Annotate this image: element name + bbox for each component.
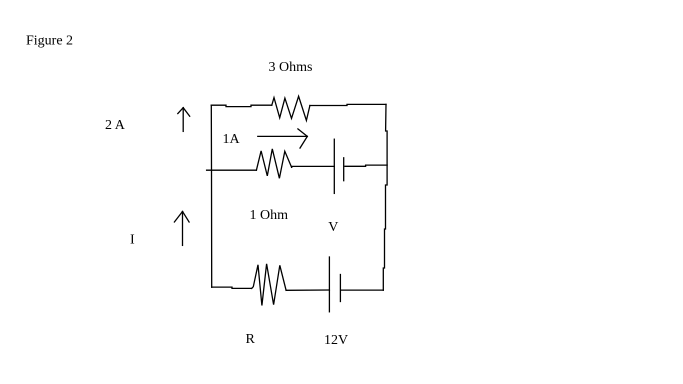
battery V short plate [343,158,345,181]
resistor R2 1 Ohm zigzag [256,149,291,178]
svg-text:R: R [246,332,256,347]
svg-text:12V: 12V [324,333,348,348]
battery V long plate [333,139,335,193]
svg-text:Figure 2: Figure 2 [26,34,73,49]
wire top-left horizontal [211,105,271,106]
battery 12V short plate [339,275,341,302]
wire top-right horizontal [310,104,386,105]
arrow up 2A [178,108,190,132]
wire battery 12V to bottom-right corner [342,289,384,291]
svg-text:I: I [130,233,135,248]
resistor R1 3 Ohms zigzag [272,96,310,120]
svg-text:1 Ohm: 1 Ohm [250,208,289,223]
svg-text:2 A: 2 A [105,118,126,133]
wire bottom to battery 12V [286,289,329,291]
wire bottom-left horizontal [212,287,252,288]
svg-text:V: V [328,220,338,235]
wire left vertical [210,105,212,287]
wire battery V to right edge [345,165,387,166]
resistor R zigzag [252,264,287,306]
wire middle-left horizontal [207,169,257,171]
svg-text:3 Ohms: 3 Ohms [269,60,313,75]
battery 12V long plate [328,257,330,312]
arrow right 1A [258,129,308,148]
wire middle to battery V [292,165,335,168]
svg-text:1A: 1A [223,132,241,147]
wire right vertical [383,104,387,290]
arrow up I [174,212,189,246]
